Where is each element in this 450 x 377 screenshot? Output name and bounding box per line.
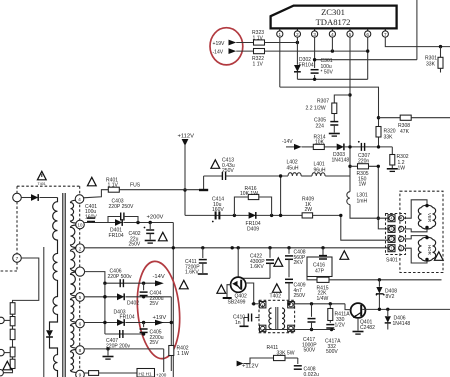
svg-text:1 1V: 1 1V: [253, 61, 264, 67]
svg-text:R307: R307: [317, 99, 329, 105]
svg-text:160V: 160V: [212, 207, 224, 213]
svg-text:* 50V: * 50V: [321, 70, 334, 76]
svg-text:45uH: 45uH: [287, 165, 299, 171]
svg-text:1 1W: 1 1W: [177, 351, 189, 357]
svg-text:1: 1: [391, 247, 393, 251]
svg-text:1 1V: 1 1V: [108, 183, 119, 189]
svg-text:3: 3: [313, 32, 316, 37]
svg-text:+200: +200: [156, 373, 167, 377]
svg-text:4: 4: [331, 32, 334, 37]
svg-text:-14V: -14V: [153, 274, 165, 280]
svg-text:7: 7: [16, 256, 19, 262]
svg-text:10K: 10K: [315, 140, 325, 146]
svg-text:1.6KV: 1.6KV: [250, 264, 264, 270]
svg-text:D402: D402: [127, 300, 139, 306]
svg-text:FR104: FR104: [120, 315, 135, 321]
svg-text:H2 H1: H2 H1: [139, 371, 152, 376]
svg-text:1n: 1n: [235, 320, 241, 326]
svg-text:10K 1W: 10K 1W: [240, 191, 258, 197]
svg-text:96uH: 96uH: [314, 167, 326, 173]
svg-text:C2482: C2482: [360, 325, 375, 331]
svg-text:47K: 47K: [400, 129, 410, 135]
svg-text:+19V: +19V: [213, 41, 226, 47]
svg-text:5: 5: [349, 32, 352, 37]
svg-text:1: 1: [279, 32, 282, 37]
svg-text:+200V: +200V: [147, 215, 164, 221]
svg-text:25V: 25V: [150, 301, 160, 307]
svg-text:2.2 1/2W: 2.2 1/2W: [306, 106, 326, 112]
svg-text:S401: S401: [386, 258, 398, 264]
svg-text:33K 5W: 33K 5W: [277, 350, 295, 356]
svg-text:FR104: FR104: [109, 233, 124, 239]
svg-text:250V: 250V: [294, 293, 306, 299]
svg-text:5: 5: [79, 295, 82, 301]
svg-text:6: 6: [79, 322, 82, 328]
svg-text:7: 7: [384, 32, 387, 37]
svg-text:Q402: Q402: [235, 294, 248, 300]
svg-text:4: 4: [391, 217, 393, 221]
svg-text:33K: 33K: [384, 134, 394, 140]
svg-text:2: 2: [79, 246, 82, 252]
svg-text:8: 8: [79, 348, 82, 354]
svg-text:250V: 250V: [222, 168, 234, 174]
svg-text:VER: VER: [427, 213, 432, 222]
svg-text:SB2499: SB2499: [228, 300, 246, 306]
svg-text:1W: 1W: [359, 182, 367, 188]
svg-text:1W: 1W: [398, 166, 406, 172]
svg-text:-14V: -14V: [213, 50, 224, 56]
svg-text:-14V: -14V: [282, 139, 293, 145]
svg-text:0.022u: 0.022u: [304, 372, 320, 377]
svg-text:2W: 2W: [305, 207, 313, 213]
svg-text:2: 2: [296, 32, 299, 37]
svg-text:500V: 500V: [326, 349, 338, 355]
svg-text:1/4W: 1/4W: [317, 296, 329, 302]
svg-text:3: 3: [391, 227, 393, 231]
svg-text:1: 1: [400, 247, 402, 251]
svg-text:500V: 500V: [304, 348, 316, 354]
svg-text:220P 250V: 220P 250V: [109, 204, 135, 210]
svg-text:+112V: +112V: [178, 134, 195, 140]
svg-text:2: 2: [400, 237, 402, 241]
svg-text:3: 3: [400, 227, 402, 231]
svg-text:1N4148: 1N4148: [393, 321, 411, 327]
svg-text:D409: D409: [247, 226, 259, 232]
svg-text:10: 10: [78, 223, 83, 228]
svg-text:2KV: 2KV: [294, 260, 304, 266]
svg-text:220P 500v: 220P 500v: [108, 274, 133, 280]
svg-text:2: 2: [391, 237, 393, 241]
svg-text:33K: 33K: [426, 61, 436, 67]
svg-text:TDA8172: TDA8172: [316, 17, 351, 27]
svg-text:250V: 250V: [129, 242, 141, 248]
svg-text:9: 9: [79, 373, 82, 377]
svg-text:6: 6: [366, 32, 369, 37]
svg-text:1N4148: 1N4148: [332, 157, 350, 163]
svg-text:4: 4: [400, 217, 402, 221]
svg-text:1/2V: 1/2V: [335, 322, 346, 328]
svg-text:HOR: HOR: [427, 245, 432, 255]
svg-text:+112V: +112V: [242, 363, 259, 369]
svg-text:25V: 25V: [150, 340, 160, 346]
svg-text:4: 4: [78, 197, 81, 203]
svg-text:1.6KV: 1.6KV: [185, 270, 199, 276]
svg-text:ZC301: ZC301: [321, 7, 345, 17]
svg-text:1mH: 1mH: [357, 198, 368, 204]
svg-text:T401: T401: [38, 182, 46, 186]
svg-text:8V2: 8V2: [386, 294, 395, 300]
svg-text:224: 224: [316, 123, 325, 129]
svg-text:+19V: +19V: [153, 315, 167, 321]
svg-text:47P: 47P: [315, 268, 325, 274]
svg-text:FR104: FR104: [299, 62, 314, 68]
svg-text:T402: T402: [270, 294, 282, 300]
svg-text:1 1V: 1 1V: [253, 35, 264, 41]
svg-text:FUS: FUS: [130, 183, 141, 189]
